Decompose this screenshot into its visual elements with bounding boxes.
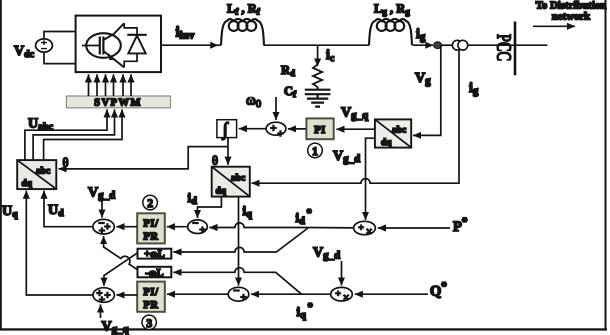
svg-text:dq: dq xyxy=(22,179,33,189)
svg-text:+: + xyxy=(200,225,206,236)
svg-text:PCC: PCC xyxy=(493,34,515,61)
capacitor Cf xyxy=(305,87,331,98)
wire +wL to S5 (cross down) xyxy=(104,253,138,286)
svg-text:ω0: ω0 xyxy=(246,93,261,111)
wire collector bracket xyxy=(124,23,137,34)
PCC bus bar xyxy=(514,22,517,76)
arrow i_inv xyxy=(210,42,218,49)
arrow S6 to PI/PR q xyxy=(167,293,228,295)
svg-text:θ: θ xyxy=(212,154,218,168)
svg-text:Vg_d: Vg_d xyxy=(313,246,340,262)
arrow S3 to PI/PR d xyxy=(167,226,188,228)
arrow ig on bus xyxy=(425,42,433,49)
wire Lg to node xyxy=(413,44,434,46)
svg-text:−: − xyxy=(193,219,199,230)
IGBT Q1 emitter xyxy=(103,51,124,67)
svg-text:PI/: PI/ xyxy=(143,287,159,298)
svg-text:Cf: Cf xyxy=(284,84,297,99)
gate pulse arrows SVPWM to inverter xyxy=(89,74,132,96)
wire i_inv inverter to Lf xyxy=(161,44,221,46)
wire -wL to S2 (cross up, with hop) xyxy=(104,236,138,270)
wire ig sense (CT down, hop over Vgd line, into abc-dq) xyxy=(252,50,460,183)
wire Vgd to P* divider xyxy=(366,138,375,220)
wire id from abc-dq to S3 xyxy=(198,197,222,218)
svg-text:+: + xyxy=(241,293,247,304)
svg-text:×: × xyxy=(343,292,349,304)
frame left border xyxy=(0,0,2,330)
svg-text:Vg: Vg xyxy=(415,71,431,87)
wire Uabc phase b into SVPWM xyxy=(33,109,114,160)
wire iq from abc-dq down to S6 xyxy=(238,197,240,286)
frame bottom border xyxy=(0,328,607,330)
inductor Lf xyxy=(221,19,264,45)
svg-text:×: × xyxy=(366,226,372,238)
wire CT to PCC xyxy=(468,44,548,46)
svg-text:Q*: Q* xyxy=(430,281,447,300)
IGBT Q1 gate lead xyxy=(82,45,100,47)
svg-text:+: + xyxy=(271,124,277,135)
arrow Vgd into S2 xyxy=(101,200,103,218)
svg-text:Vg_q: Vg_q xyxy=(341,106,369,122)
arrow ic xyxy=(314,59,321,67)
wire Vdc top to inverter xyxy=(44,32,76,39)
svg-text:−: − xyxy=(234,286,240,297)
integrator block xyxy=(217,120,237,138)
inverter U1 box xyxy=(76,16,161,73)
badge 1 xyxy=(308,143,323,158)
decoupling block -wL xyxy=(138,267,172,278)
svg-text:3: 3 xyxy=(146,318,152,330)
arrow Vgq block to PI xyxy=(336,128,375,130)
svg-text:iinv: iinv xyxy=(176,25,195,42)
svg-text:2: 2 xyxy=(147,198,153,210)
svg-text:dq: dq xyxy=(381,138,392,148)
summing junction S6 (iq error) xyxy=(228,287,249,301)
svg-text:iq*: iq* xyxy=(297,302,313,321)
svg-text:+: + xyxy=(105,291,111,302)
wire iq* branch to -wL (hop over iq) xyxy=(173,268,301,295)
controller PI (PLL) xyxy=(306,118,333,139)
svg-text:iq: iq xyxy=(243,203,253,220)
IGBT Q1 gate bars xyxy=(100,37,104,55)
arrow PI/PR d to S2 xyxy=(116,226,137,228)
svg-text:Lg , Rg: Lg , Rg xyxy=(374,2,410,17)
arrow sum S1 to integrator xyxy=(239,128,266,130)
summing junction S3 (id error) xyxy=(188,220,208,234)
badge 2 xyxy=(143,195,158,210)
svg-text:P*: P* xyxy=(453,216,468,235)
wire id* branch to +wL (hop over iq) xyxy=(173,228,308,253)
wire node to CT xyxy=(442,44,454,46)
svg-text:PR: PR xyxy=(143,300,158,311)
wire Ud into left block xyxy=(44,191,93,227)
transform block abc-dq voltage (right) xyxy=(375,119,411,148)
divider D-P (id* = P*/Vgd) xyxy=(354,221,376,234)
svg-text:Uabc: Uabc xyxy=(28,117,54,133)
divider D-Q (iq* = Q*/Vgd) xyxy=(331,287,353,301)
frame right border xyxy=(605,0,607,330)
svg-text:ig: ig xyxy=(416,27,426,43)
svg-text:PR: PR xyxy=(143,232,158,243)
node junction dot xyxy=(434,42,442,49)
svg-text:Vg_d: Vg_d xyxy=(333,149,360,165)
wire ic branch xyxy=(317,45,319,60)
IGBT Q1 collector xyxy=(103,23,124,40)
decoupling block +wL xyxy=(138,249,172,259)
wire Uabc phase a into SVPWM xyxy=(25,109,107,160)
wire theta branch to left abc-dq xyxy=(59,147,229,169)
svg-text:+: + xyxy=(105,222,111,233)
wire Lf to Lg (bus with Cf tap) xyxy=(264,44,370,46)
wire Vdc bottom to inverter xyxy=(44,52,76,64)
controller PI/PR d-axis xyxy=(137,213,165,243)
arrow PI/PR q to S5 xyxy=(116,294,137,296)
dc source Vdc xyxy=(36,39,53,52)
arrow Vgd into Q-divider xyxy=(341,261,343,286)
wire theta integrator to abc-dq (current) xyxy=(227,138,229,165)
wire Uq into left block xyxy=(26,191,93,295)
arrow w0 into sum xyxy=(275,97,277,120)
svg-text:+: + xyxy=(278,129,284,140)
svg-text:+: + xyxy=(99,226,105,237)
IGBT Q1 emitter arrow xyxy=(108,53,116,60)
svg-text:ic: ic xyxy=(326,48,335,64)
svg-text:PI/: PI/ xyxy=(143,219,159,230)
svg-text:Vg_d: Vg_d xyxy=(88,186,115,202)
svg-text:Ud: Ud xyxy=(48,203,64,219)
svg-text:id*: id* xyxy=(296,208,312,227)
svg-text:abc: abc xyxy=(392,126,406,136)
svg-text:Rd: Rd xyxy=(281,63,295,78)
transform block abc-dq modulation (left) xyxy=(17,160,56,189)
wire Vg sense xyxy=(413,45,441,135)
svg-text:ig: ig xyxy=(469,81,479,97)
inductor Lg xyxy=(369,19,412,45)
summing junction S5 (q axis) xyxy=(93,288,114,303)
IGBT Q1 circle xyxy=(86,33,121,58)
ground xyxy=(307,99,328,107)
svg-text:abc: abc xyxy=(36,167,50,177)
controller PI/PR q-axis xyxy=(137,282,165,312)
modulator SVPWM xyxy=(66,96,170,108)
svg-text:network: network xyxy=(552,11,590,23)
svg-text:+: + xyxy=(99,295,105,306)
svg-text:-ωL: -ωL xyxy=(145,268,163,279)
svg-text:÷: ÷ xyxy=(359,224,364,234)
diode D1 triangle xyxy=(128,36,145,54)
arrow Q* into divider xyxy=(355,293,428,295)
summing junction S1 (PLL) xyxy=(266,122,286,135)
summing junction S2 (d axis) xyxy=(93,219,114,234)
arrow to distribution network xyxy=(533,25,575,27)
svg-text:dq: dq xyxy=(216,187,227,197)
wire emitter bracket xyxy=(124,53,137,67)
svg-text:÷: ÷ xyxy=(336,290,341,300)
svg-text:Vdc: Vdc xyxy=(14,44,35,60)
svg-text:PI: PI xyxy=(314,125,326,136)
diode D1 cathode bar xyxy=(127,34,146,36)
svg-text:abc: abc xyxy=(231,174,245,184)
wire iq* from Q-divider to S6 xyxy=(251,293,331,295)
wire id* from P-divider to S3 (hop over iq) xyxy=(209,223,353,228)
svg-text:id: id xyxy=(188,190,198,207)
svg-text:Uq: Uq xyxy=(2,204,18,220)
arrow PI to sum S1 xyxy=(288,128,306,130)
svg-text:Lf , Rf: Lf , Rf xyxy=(227,2,261,17)
svg-text:SVPWM: SVPWM xyxy=(94,98,142,109)
badge 3 xyxy=(142,315,156,329)
resistor Rd xyxy=(313,65,322,88)
arrow P* into divider xyxy=(378,227,450,229)
arrow Vgq into S5 xyxy=(100,304,102,318)
svg-text:Vg_q: Vg_q xyxy=(102,320,130,335)
svg-text:1: 1 xyxy=(312,146,318,158)
CT current transformer circles xyxy=(452,40,462,50)
svg-text:+ωL: +ωL xyxy=(144,249,165,260)
transform block abc-dq current xyxy=(212,167,250,197)
svg-text:θ: θ xyxy=(63,156,69,170)
wire Uabc phase c into SVPWM xyxy=(44,109,122,160)
